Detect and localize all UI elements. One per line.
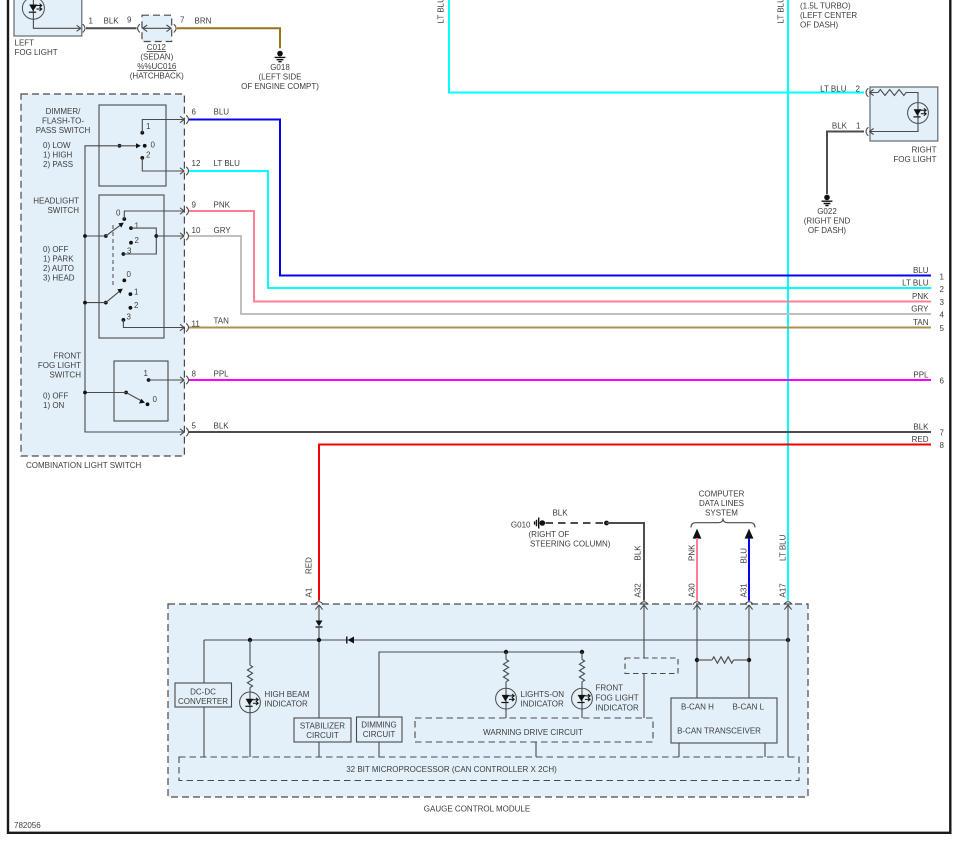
svg-text:BRN: BRN (195, 17, 212, 26)
svg-text:CIRCUIT: CIRCUIT (363, 730, 396, 739)
svg-text:LEFT: LEFT (15, 39, 35, 48)
terminating resistor (between A30 and A31) (697, 657, 749, 663)
junction (rail / A17) (786, 638, 790, 642)
wire 7 BLK bus (189, 431, 931, 433)
headlight switch (33, 195, 184, 338)
pin A17 entry (784, 602, 792, 610)
left fog light (14, 0, 85, 57)
svg-text:BLK: BLK (634, 545, 643, 561)
dimmer/flash-to-pass switch (36, 105, 185, 186)
svg-text:FOG LIGHT: FOG LIGHT (893, 155, 936, 164)
svg-text:0) OFF: 0) OFF (43, 245, 68, 254)
gauge control module (dashed enclosure) (168, 604, 808, 813)
svg-text:BLK: BLK (913, 423, 929, 432)
svg-text:(HATCHBACK): (HATCHBACK) (130, 72, 184, 81)
svg-text:2: 2 (146, 150, 151, 159)
wire 8 labels (912, 435, 945, 450)
svg-text:G010: G010 (511, 521, 531, 530)
wire 1 BLU bus (189, 120, 931, 276)
wire A30 internal (696, 605, 698, 698)
svg-text:1: 1 (146, 122, 151, 131)
common rail wire (switch commons to pin 5) (83, 146, 184, 432)
svg-text:0: 0 (127, 270, 132, 279)
svg-text:A30: A30 (688, 583, 697, 598)
wire B-CAN L to microprocessor (764, 743, 766, 757)
svg-text:1) HIGH: 1) HIGH (43, 150, 73, 159)
junction (feed rail / front fog) (580, 650, 584, 654)
wire 2 LT BLU bus (189, 171, 931, 288)
svg-text:BLK: BLK (552, 509, 568, 518)
wire 6 labels (913, 371, 944, 386)
pin 6 connector (180, 107, 229, 123)
svg-text:8: 8 (192, 369, 197, 378)
indicator feed rail (dimming circuit to indicators) (379, 652, 582, 717)
pin 8 connector (180, 369, 229, 384)
svg-text:1: 1 (144, 369, 149, 378)
svg-text:TAN: TAN (913, 318, 929, 327)
svg-text:FLASH-TO-: FLASH-TO- (42, 116, 84, 125)
svg-text:OF ENGINE COMPT): OF ENGINE COMPT) (241, 82, 319, 91)
svg-text:7: 7 (940, 429, 945, 438)
svg-text:2: 2 (134, 301, 139, 310)
pin 12 connector (180, 159, 240, 175)
svg-text:BLK: BLK (214, 421, 230, 430)
dimming circuit (357, 717, 403, 742)
svg-text:3: 3 (127, 313, 132, 322)
svg-text:CONVERTER: CONVERTER (178, 697, 228, 706)
svg-text:BLK: BLK (104, 17, 120, 26)
pin A31 entry (745, 602, 753, 610)
svg-text:GAUGE CONTROL MODULE: GAUGE CONTROL MODULE (424, 804, 530, 813)
svg-text:BLU: BLU (740, 548, 749, 564)
svg-text:LT BLU: LT BLU (820, 85, 847, 94)
junction (feed rail / lights-on) (504, 650, 508, 654)
wire BRN C012 to ground G018 (177, 28, 280, 48)
wire A1 internal (318, 605, 320, 621)
warning drive circuit (dashed box) (415, 718, 653, 742)
svg-text:OF DASH): OF DASH) (800, 21, 839, 30)
wire B-CAN H to microprocessor (678, 743, 680, 757)
svg-text:HEADLIGHT: HEADLIGHT (33, 196, 79, 205)
stabilizer circuit (294, 718, 351, 742)
wire A17 internal (787, 605, 789, 757)
svg-text:2) PASS: 2) PASS (43, 160, 73, 169)
junction (A31 / terminating resistor) (747, 658, 751, 662)
svg-text:8: 8 (940, 441, 945, 450)
ground G022 (804, 195, 851, 235)
DC-DC converter (175, 683, 232, 707)
pin 5 connector (180, 421, 229, 436)
svg-text:2: 2 (856, 85, 861, 94)
svg-text:12: 12 (192, 159, 201, 168)
svg-text:INDICATOR: INDICATOR (521, 700, 564, 709)
ground G010 (511, 518, 611, 549)
svg-text:3: 3 (940, 298, 945, 307)
svg-text:B-CAN TRANSCEIVER: B-CAN TRANSCEIVER (677, 726, 761, 735)
svg-text:LT BLU: LT BLU (437, 0, 446, 24)
svg-text:LT BLU: LT BLU (902, 279, 929, 288)
unnamed dashed component on A32 line (625, 658, 678, 674)
combination light switch (dashed enclosure) (21, 94, 184, 470)
svg-text:(LEFT SIDE: (LEFT SIDE (259, 73, 302, 82)
svg-text:DATA LINES: DATA LINES (699, 499, 744, 508)
svg-text:FRONT: FRONT (53, 351, 81, 360)
internal supply rail (204, 639, 788, 641)
svg-text:RIGHT: RIGHT (912, 145, 937, 154)
svg-text:BLU: BLU (913, 266, 929, 275)
wire 5 labels (913, 318, 944, 333)
svg-text:RED: RED (912, 435, 929, 444)
svg-text:CIRCUIT: CIRCUIT (306, 731, 339, 740)
wire BLK junction to module pin A32 (607, 523, 645, 601)
wire BLK right fog light to ground G022 (827, 132, 864, 195)
svg-text:(SEDAN): (SEDAN) (140, 53, 173, 62)
wire 6 PPL bus (189, 379, 931, 381)
wire A32 internal (643, 605, 645, 658)
wire BLK left fog light to C012 (86, 27, 137, 29)
wire BLU to module pin A31 (with arrow) (745, 530, 753, 601)
svg-text:LT BLU: LT BLU (779, 534, 788, 561)
junction (BLK wire) (604, 521, 609, 526)
front fog light indicator (resistor + LED) (572, 652, 639, 718)
svg-text:PNK: PNK (912, 292, 929, 301)
svg-text:0) LOW: 0) LOW (43, 141, 71, 150)
svg-text:B-CAN L: B-CAN L (733, 703, 765, 712)
svg-text:OF DASH): OF DASH) (808, 226, 847, 235)
svg-text:PPL: PPL (214, 369, 230, 378)
svg-text:PNK: PNK (688, 544, 697, 561)
note (1.5L TURBO) (LEFT CENTER OF DASH) (800, 2, 857, 30)
svg-text:GRY: GRY (911, 305, 929, 314)
svg-text:9: 9 (192, 200, 197, 209)
wire A31 internal (748, 605, 750, 698)
wire stabilizer to microprocessor (318, 742, 320, 757)
pin A32 entry (640, 602, 648, 610)
svg-text:A17: A17 (779, 583, 788, 598)
high beam indicator (resistor + LED) (240, 640, 310, 757)
svg-text:9: 9 (127, 16, 132, 25)
svg-text:(1.5L TURBO): (1.5L TURBO) (800, 2, 851, 11)
wire warning drive circuit to microprocessor (535, 742, 537, 757)
lights-on indicator (resistor + LED) (496, 652, 565, 718)
pin A30 entry (693, 602, 701, 610)
wire 7 labels (913, 423, 944, 438)
svg-text:10: 10 (192, 226, 201, 235)
svg-text:STEERING COLUMN): STEERING COLUMN) (530, 540, 611, 549)
pin 10 connector (180, 226, 231, 240)
svg-text:PASS SWITCH: PASS SWITCH (36, 126, 91, 135)
wire PNK to module pin A30 (with arrow) (693, 530, 701, 601)
svg-text:GRY: GRY (214, 226, 232, 235)
svg-text:1) ON: 1) ON (43, 401, 65, 410)
svg-text:C012: C012 (147, 43, 167, 52)
svg-text:1) PARK: 1) PARK (43, 254, 74, 263)
svg-text:FOG LIGHT: FOG LIGHT (15, 48, 58, 57)
svg-text:2: 2 (135, 236, 140, 245)
svg-text:INDICATOR: INDICATOR (265, 700, 308, 709)
wire BLK dashed G010 to junction (546, 522, 604, 524)
svg-text:BLU: BLU (214, 107, 230, 116)
wire A1 diode to stabilizer circuit (318, 627, 320, 718)
svg-text:DIMMER/: DIMMER/ (46, 107, 81, 116)
svg-text:TAN: TAN (214, 317, 230, 326)
svg-text:5: 5 (940, 324, 945, 333)
wire LT BLU top-left vertical to right fog light (449, 0, 864, 93)
svg-text:BLK: BLK (832, 121, 848, 130)
B-CAN transceiver (671, 698, 777, 743)
svg-text:(LEFT CENTER: (LEFT CENTER (800, 11, 857, 20)
svg-text:PNK: PNK (214, 200, 231, 209)
svg-text:3) HEAD: 3) HEAD (43, 273, 75, 282)
svg-text:0: 0 (116, 208, 121, 217)
pin 1 label (right fog light) (832, 121, 861, 130)
svg-text:WARNING DRIVE CIRCUIT: WARNING DRIVE CIRCUIT (483, 728, 583, 737)
svg-text:COMBINATION LIGHT SWITCH: COMBINATION LIGHT SWITCH (26, 461, 141, 470)
svg-text:G018: G018 (270, 63, 290, 72)
svg-text:LIGHTS-ON: LIGHTS-ON (521, 690, 565, 699)
ground G018 (241, 51, 319, 91)
svg-text:STABILIZER: STABILIZER (300, 721, 345, 730)
svg-text:1: 1 (135, 221, 140, 230)
wire 3 labels (912, 292, 944, 307)
svg-text:HIGH BEAM: HIGH BEAM (265, 690, 310, 699)
svg-text:SYSTEM: SYSTEM (705, 508, 738, 517)
svg-text:A32: A32 (634, 583, 643, 598)
wire 4 labels (911, 305, 944, 320)
svg-text:4: 4 (940, 311, 945, 320)
right fog light (866, 87, 938, 164)
svg-text:FOG LIGHT: FOG LIGHT (596, 693, 639, 702)
svg-text:32 BIT MICROPROCESSOR (CAN CON: 32 BIT MICROPROCESSOR (CAN CONTROLLER X … (346, 765, 557, 774)
svg-text:SWITCH: SWITCH (47, 206, 79, 215)
svg-text:2) AUTO: 2) AUTO (43, 264, 74, 273)
svg-text:0) OFF: 0) OFF (43, 391, 68, 400)
svg-text:0: 0 (151, 140, 156, 149)
svg-text:1: 1 (134, 287, 139, 296)
pin 9 connector (180, 200, 231, 215)
diode D1 (A1 line, cathode down) (316, 621, 323, 628)
svg-text:LT BLU: LT BLU (214, 159, 241, 168)
svg-text:6: 6 (192, 107, 197, 116)
svg-text:1: 1 (89, 17, 94, 26)
wire 4 GRY bus (189, 236, 931, 314)
svg-text:%%UC016: %%UC016 (137, 62, 177, 71)
svg-text:(RIGHT END: (RIGHT END (804, 216, 851, 225)
svg-text:782056: 782056 (14, 821, 41, 830)
pin A1 entry (315, 602, 323, 610)
svg-text:FOG LIGHT: FOG LIGHT (38, 361, 81, 370)
wire rail to DC-DC converter (203, 640, 205, 683)
svg-text:7: 7 (180, 16, 185, 25)
svg-text:LT BLU: LT BLU (777, 0, 786, 24)
wire 5 TAN bus (189, 327, 931, 329)
wire A32 to warning drive circuit (643, 674, 645, 719)
svg-text:0: 0 (153, 395, 158, 404)
svg-text:FRONT: FRONT (596, 683, 624, 692)
svg-text:B-CAN H: B-CAN H (681, 703, 714, 712)
svg-text:RED: RED (305, 557, 314, 574)
diode D2 (rail, cathode left) (347, 637, 354, 644)
svg-text:A31: A31 (740, 583, 749, 598)
svg-text:INDICATOR: INDICATOR (596, 703, 639, 712)
svg-text:2: 2 (940, 285, 945, 294)
svg-text:COMPUTER: COMPUTER (699, 489, 745, 498)
svg-text:(RIGHT OF: (RIGHT OF (529, 530, 570, 539)
junction (rail / high beam) (248, 638, 252, 642)
svg-text:G022: G022 (817, 207, 837, 216)
wire dimming to microprocessor (378, 742, 380, 757)
svg-text:1: 1 (856, 121, 861, 130)
wire 2 labels (902, 279, 944, 295)
wire DC-DC to microprocessor (203, 707, 205, 757)
svg-text:PPL: PPL (913, 371, 929, 380)
connector C012 (130, 15, 184, 80)
svg-text:5: 5 (192, 421, 197, 430)
wire LT BLU vertical to module pin A17 (787, 0, 789, 601)
wire 1 labels (913, 266, 945, 282)
pin 2 label (right fog light) (820, 85, 860, 94)
svg-text:1: 1 (940, 273, 945, 282)
svg-text:DIMMING: DIMMING (361, 720, 397, 729)
junction (A30 / terminating resistor) (695, 658, 699, 662)
wire 8 RED bus to module pin A1 (319, 445, 931, 601)
front fog light switch (38, 351, 184, 421)
svg-text:SWITCH: SWITCH (49, 370, 81, 379)
svg-text:6: 6 (940, 377, 945, 386)
svg-text:A1: A1 (305, 587, 314, 597)
pin 11 connector (180, 317, 229, 332)
svg-text:DC-DC: DC-DC (190, 688, 216, 697)
32 bit microprocessor (dashed box) (179, 757, 799, 781)
wire 3 PNK bus (189, 211, 931, 302)
junction (rail / A1) (317, 638, 321, 642)
note COMPUTER DATA LINES SYSTEM (691, 489, 755, 527)
